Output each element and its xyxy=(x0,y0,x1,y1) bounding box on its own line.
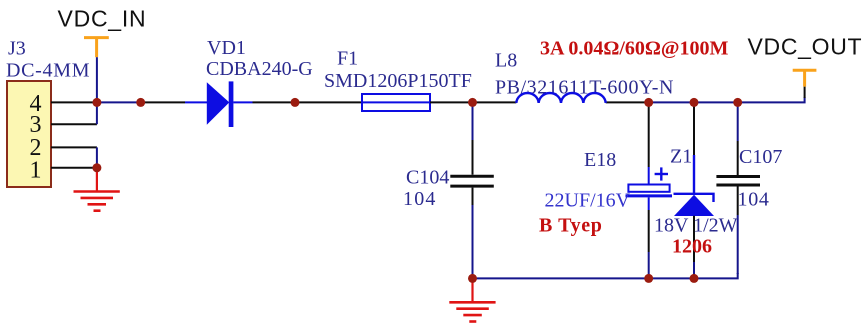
svg-text:104: 104 xyxy=(403,188,437,210)
svg-text:22UF/16V: 22UF/16V xyxy=(545,190,631,212)
svg-text:C104: C104 xyxy=(406,167,449,189)
svg-text:1206: 1206 xyxy=(672,236,712,258)
svg-text:VDC_OUT: VDC_OUT xyxy=(748,34,863,60)
svg-text:C107: C107 xyxy=(739,146,782,168)
svg-text:VDC_IN: VDC_IN xyxy=(58,5,147,31)
svg-text:3A 0.04Ω/60Ω@100M: 3A 0.04Ω/60Ω@100M xyxy=(540,38,729,60)
svg-text:Z1: Z1 xyxy=(670,146,692,168)
svg-text:SMD1206P150TF: SMD1206P150TF xyxy=(324,70,472,92)
svg-text:J3: J3 xyxy=(8,38,26,60)
svg-text:1: 1 xyxy=(30,158,42,184)
svg-text:F1: F1 xyxy=(337,48,358,70)
svg-text:18V 1/2W: 18V 1/2W xyxy=(654,215,738,237)
svg-text:104: 104 xyxy=(738,189,770,211)
svg-text:VD1: VD1 xyxy=(207,37,246,59)
svg-text:L8: L8 xyxy=(495,50,517,72)
svg-text:B Tyep: B Tyep xyxy=(539,215,602,237)
svg-text:DC-4MM: DC-4MM xyxy=(6,60,90,82)
svg-text:E18: E18 xyxy=(584,149,616,171)
svg-text:CDBA240-G: CDBA240-G xyxy=(206,58,313,80)
